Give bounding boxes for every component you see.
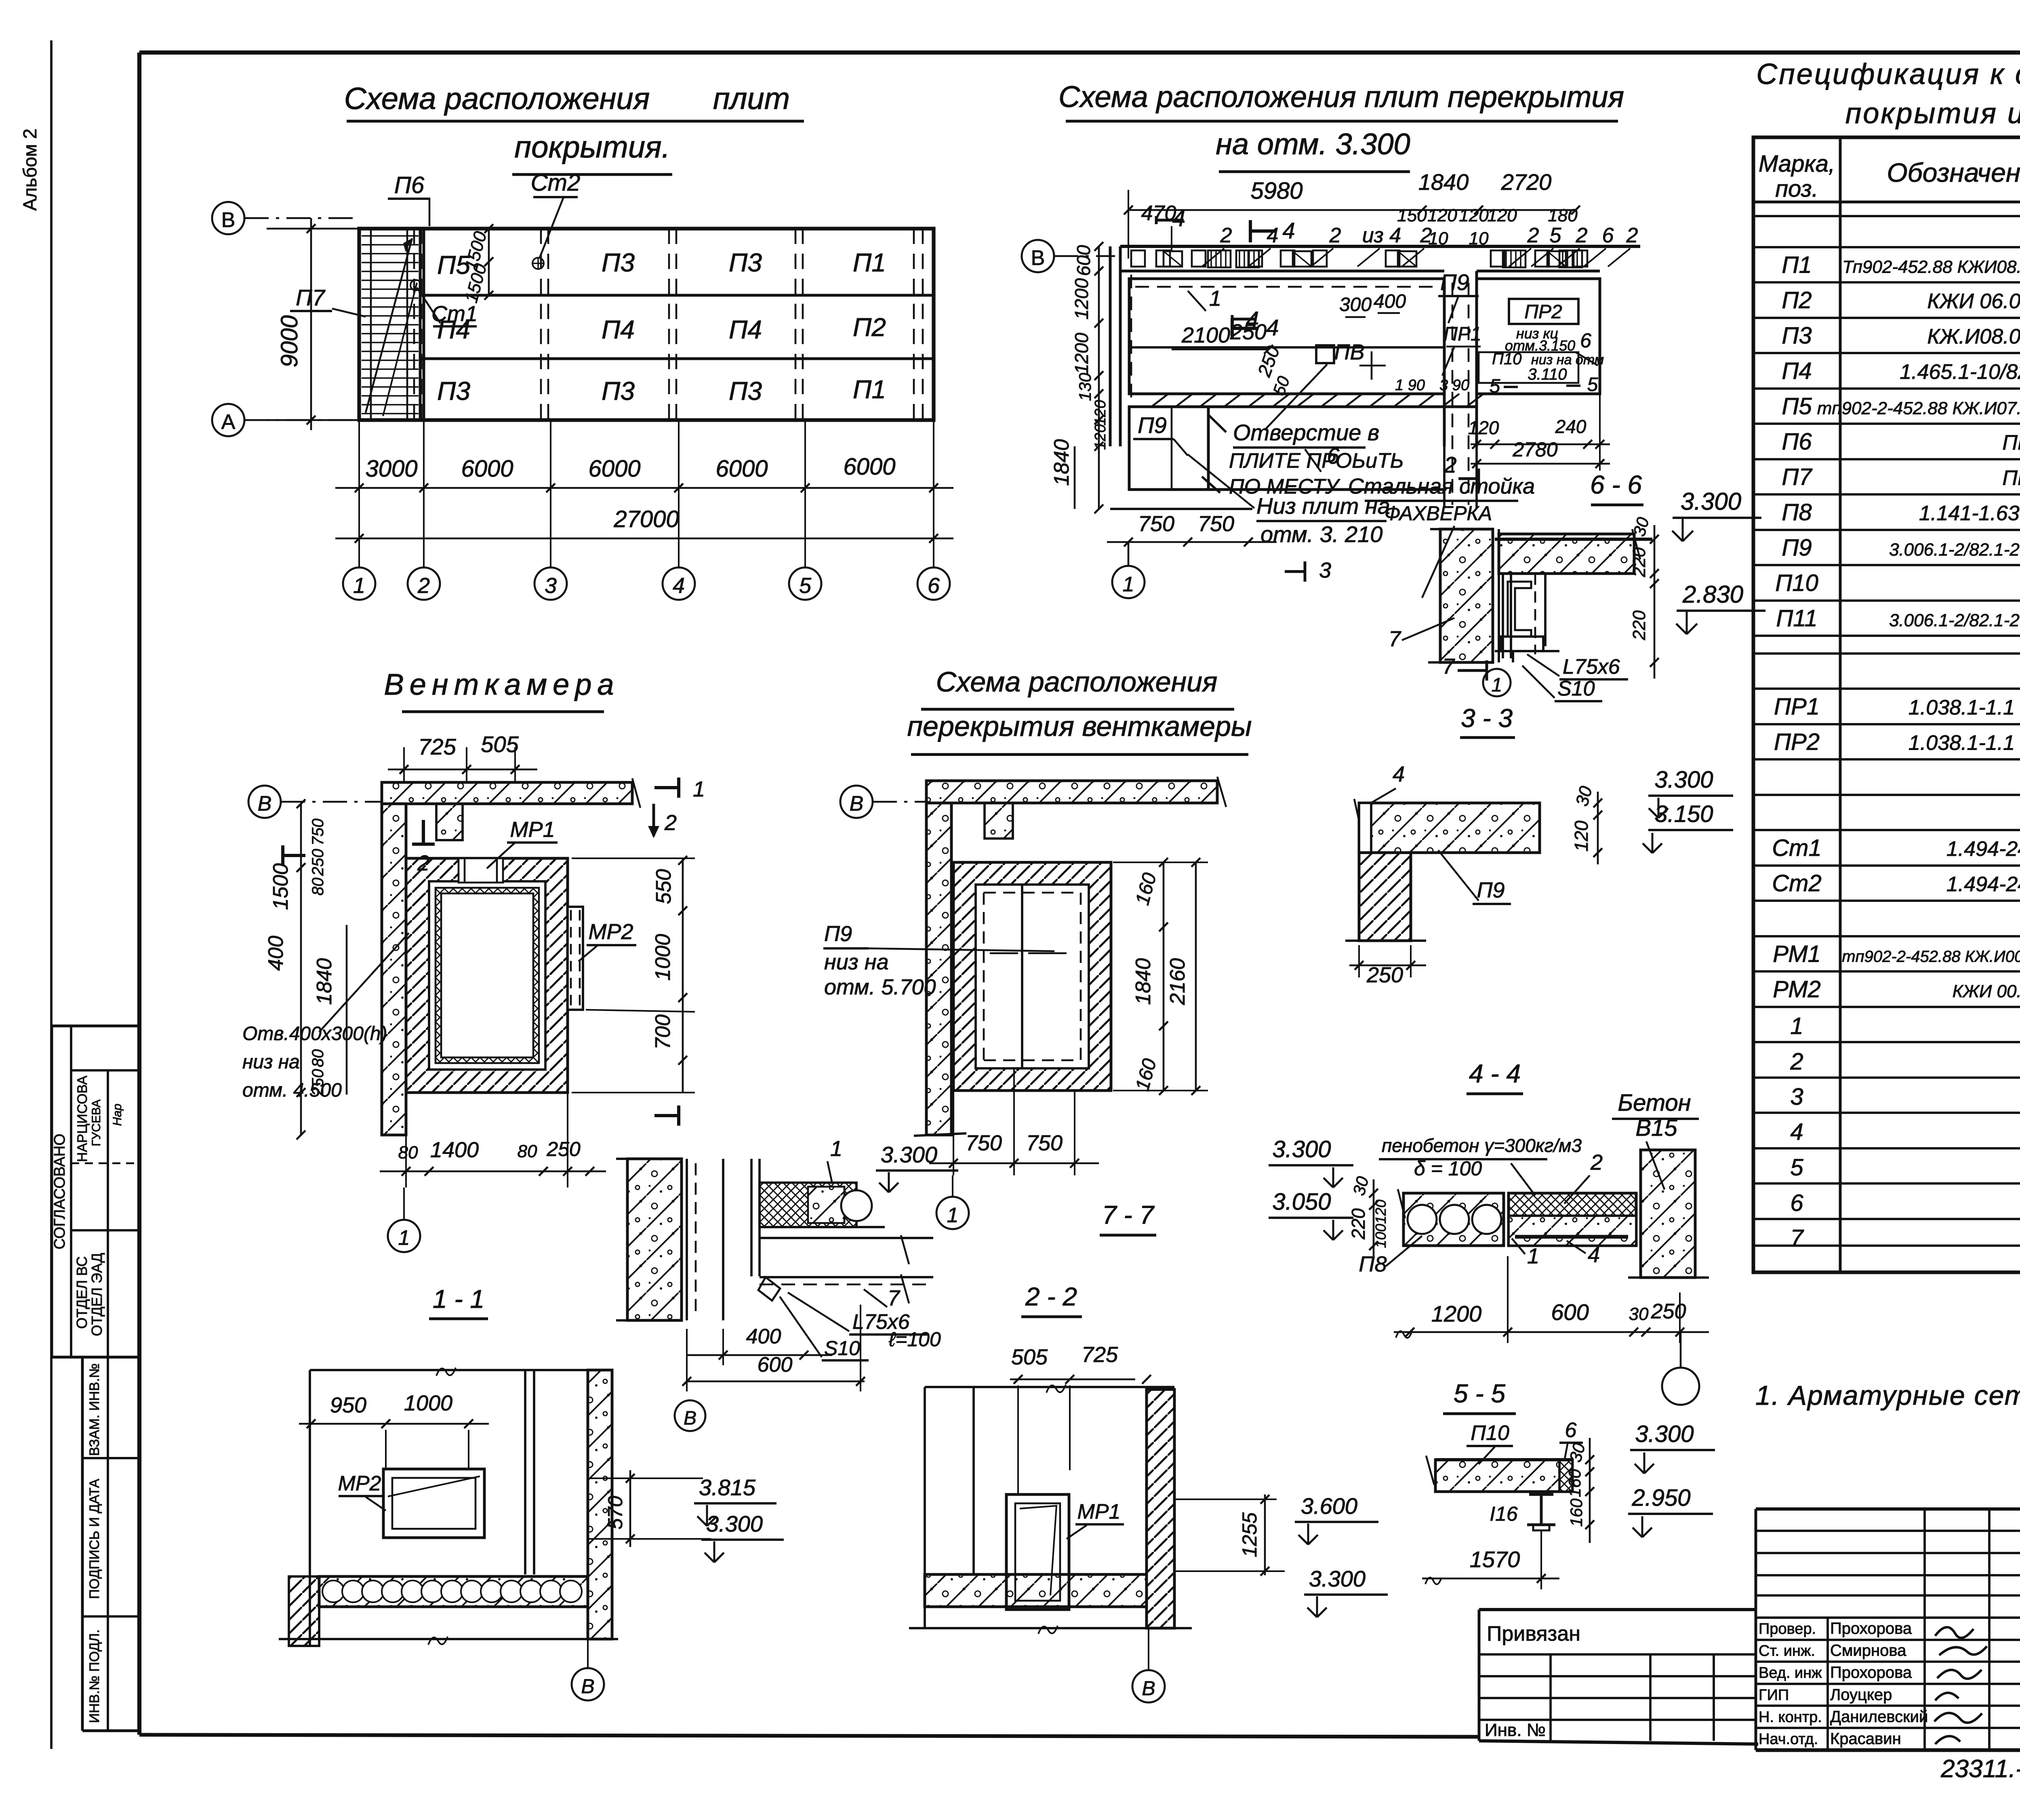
svg-text:В: В — [221, 208, 236, 232]
mid plan axis 1 circle — [936, 1197, 969, 1229]
svg-text:3.110: 3.110 — [1528, 366, 1567, 383]
svg-text:725: 725 — [418, 734, 456, 759]
svg-text:4: 4 — [1266, 315, 1279, 340]
svg-text:2: 2 — [1329, 224, 1341, 247]
svg-text:П4: П4 — [729, 315, 762, 344]
section 6-6 fachwerk channel — [1508, 582, 1531, 637]
sheet paper edge line — [50, 40, 53, 1749]
svg-text:П6: П6 — [394, 172, 425, 198]
plan 2 left wall — [1109, 246, 1112, 446]
svg-text:П3: П3 — [602, 248, 635, 277]
svg-text:4: 4 — [1267, 224, 1279, 247]
svg-text:1. Арматурные сетки поз.4.5: 1. Арматурные сетки поз.4.5 Взяты по ГОС… — [1755, 1380, 2020, 1411]
svg-text:П7: П7 — [1782, 464, 1813, 490]
svg-text:1500: 1500 — [269, 863, 292, 910]
svg-text:3.815: 3.815 — [699, 1475, 756, 1500]
svg-text:S10: S10 — [1557, 677, 1595, 700]
svg-text:В: В — [581, 1675, 594, 1698]
1-1 bottom slab — [319, 1576, 588, 1607]
svg-text:Отв.400х300(h): Отв.400х300(h) — [242, 1023, 387, 1045]
П9 vertical strip right of slab — [1443, 279, 1446, 446]
svg-text:7 - 7: 7 - 7 — [1102, 1200, 1155, 1229]
svg-text:Тп902-452.88 КЖИ08.00.00.00: Тп902-452.88 КЖИ08.00.00.00 — [1842, 257, 2020, 277]
svg-text:6: 6 — [1565, 1419, 1577, 1442]
svg-text:В: В — [684, 1408, 696, 1429]
svg-text:7: 7 — [888, 1286, 901, 1310]
plan 1 outline — [359, 229, 934, 420]
svg-text:7: 7 — [1442, 654, 1455, 679]
ventkamera axis circle 1 — [388, 1220, 420, 1252]
svg-text:ИНВ.№ ПОДЛ.: ИНВ.№ ПОДЛ. — [87, 1629, 102, 1723]
7-7 dims — [687, 1354, 832, 1356]
svg-text:120: 120 — [1468, 417, 1499, 438]
svg-text:1.494-24 вып.1: 1.494-24 вып.1 — [1946, 873, 2020, 896]
section 4-4 monolith part — [1509, 1193, 1636, 1246]
section 3-3 wall below — [1359, 853, 1411, 941]
svg-text:Спецификация к схемам распо: Спецификация к схемам расположения плит — [1756, 58, 2020, 90]
svg-text:П4: П4 — [602, 315, 635, 344]
section 6-6 wall panel below slab — [1502, 574, 1504, 658]
MP2 frame right — [568, 907, 583, 1010]
plan 2 main slab field — [1129, 279, 1444, 394]
svg-text:750: 750 — [1138, 512, 1174, 536]
1-1 right levels — [629, 1470, 631, 1547]
svg-text:3.006.1-2/82.1-2.-1.0-058: 3.006.1-2/82.1-2.-1.0-058 — [1889, 611, 2020, 630]
section 5-5 I-beam — [1540, 1492, 1543, 1525]
svg-text:1: 1 — [1209, 286, 1221, 311]
svg-text:600: 600 — [1551, 1299, 1589, 1325]
svg-text:250: 250 — [1651, 1300, 1686, 1323]
section 3-3 bottom dim — [1349, 965, 1426, 967]
svg-text:П1: П1 — [1782, 252, 1812, 278]
svg-text:150: 150 — [1397, 206, 1427, 225]
svg-text:Красавин: Красавин — [1830, 1730, 1901, 1748]
section 3-3 left cap — [1359, 803, 1371, 853]
svg-text:130: 130 — [1075, 372, 1094, 401]
svg-text:2: 2 — [417, 574, 430, 598]
svg-text:Марка,: Марка, — [1759, 151, 1835, 177]
ventkamera chamber walls — [406, 858, 568, 1093]
svg-text:80: 80 — [309, 878, 327, 896]
svg-text:П4: П4 — [1782, 358, 1812, 384]
svg-text:3: 3 — [1319, 558, 1331, 582]
svg-text:1400: 1400 — [430, 1138, 479, 1162]
MP1 frame opening top — [459, 858, 503, 883]
svg-text:Прохорова: Прохорова — [1830, 1620, 1912, 1637]
svg-text:120: 120 — [1092, 400, 1109, 425]
svg-text:6: 6 — [1602, 224, 1614, 247]
svg-text:ПЛИТЕ ПРОЬиТЬ: ПЛИТЕ ПРОЬиТЬ — [1229, 449, 1404, 473]
ventkamera ceiling block — [436, 804, 463, 840]
svg-text:покрытия.: покрытия. — [514, 130, 670, 164]
svg-text:ПР1: ПР1 — [1443, 324, 1481, 345]
svg-text:Ст2: Ст2 — [1772, 870, 1821, 897]
svg-text:1840: 1840 — [1418, 169, 1469, 195]
svg-text:П3: П3 — [729, 248, 762, 277]
svg-text:низ на: низ на — [242, 1051, 300, 1073]
mid plan chamber — [953, 862, 1111, 1091]
svg-text:П1: П1 — [853, 375, 886, 404]
mid plan bottom dims — [953, 1091, 954, 1175]
svg-text:400: 400 — [264, 936, 288, 971]
svg-text:1: 1 — [1492, 675, 1502, 696]
plan1 axis circles bottom — [358, 549, 360, 567]
svg-text:1 90: 1 90 — [1395, 377, 1425, 394]
svg-text:3 - 3: 3 - 3 — [1461, 704, 1513, 733]
svg-text:ВЗАМ. ИНВ.№: ВЗАМ. ИНВ.№ — [87, 1363, 102, 1456]
svg-text:пенобетон γ=300кг/м3: пенобетон γ=300кг/м3 — [1382, 1135, 1582, 1156]
svg-text:плит: плит — [713, 82, 790, 116]
small channel symbols in band — [1131, 250, 1145, 267]
svg-text:S10: S10 — [824, 1337, 860, 1360]
ventkamera bottom dims — [380, 1171, 606, 1173]
7-7 lower band — [760, 1237, 933, 1239]
svg-text:Венткамера: Венткамера — [384, 668, 619, 701]
svg-text:2: 2 — [1626, 224, 1638, 247]
svg-text:570: 570 — [604, 1496, 627, 1530]
svg-text:2: 2 — [1443, 452, 1456, 477]
2-2 axis B — [1132, 1670, 1165, 1702]
section 4-4 ref circle — [1662, 1368, 1699, 1405]
svg-text:Альбом 2: Альбом 2 — [19, 128, 40, 210]
section 3-3 slab — [1359, 803, 1540, 853]
svg-text:750: 750 — [1026, 1131, 1063, 1155]
svg-text:1: 1 — [947, 1204, 959, 1227]
svg-text:МР1: МР1 — [1077, 1500, 1121, 1524]
svg-text:Схема расположения: Схема расположения — [344, 82, 650, 116]
opening in slab — [1316, 345, 1334, 363]
svg-text:120: 120 — [1372, 1200, 1389, 1224]
svg-text:1000: 1000 — [404, 1391, 452, 1415]
sheet frame — [139, 50, 2020, 55]
svg-text:П8: П8 — [1782, 499, 1812, 525]
1-1 left edge — [309, 1370, 311, 1646]
svg-text:Нар: Нар — [111, 1103, 124, 1126]
axis B/A circles left — [212, 202, 244, 234]
svg-text:ПР2: ПР2 — [1524, 301, 1562, 323]
7-7 left wall — [627, 1159, 682, 1320]
svg-text:Бетон: Бетон — [1618, 1090, 1691, 1116]
ventkamera ceiling slab — [382, 782, 632, 804]
7-7 wall layers — [686, 1159, 688, 1320]
1-1 top dims — [299, 1423, 489, 1425]
svg-text:950: 950 — [330, 1393, 366, 1417]
svg-text:П8: П8 — [1359, 1252, 1387, 1276]
svg-text:1.465.1-10/82 вып.0: 1.465.1-10/82 вып.0 — [1900, 360, 2020, 384]
svg-text:1840: 1840 — [1132, 958, 1155, 1005]
svg-text:МР2: МР2 — [588, 920, 633, 944]
svg-text:5: 5 — [799, 574, 812, 598]
svg-text:3.300: 3.300 — [1635, 1421, 1694, 1447]
svg-text:П6: П6 — [1782, 429, 1812, 455]
svg-text:КЖИ 06.00.00.00: КЖИ 06.00.00.00 — [1927, 290, 2020, 313]
svg-text:3.300: 3.300 — [1272, 1136, 1331, 1162]
svg-text:1570: 1570 — [1470, 1547, 1520, 1572]
svg-text:Смирнова: Смирнова — [1830, 1642, 1906, 1660]
svg-text:250: 250 — [1230, 320, 1267, 344]
svg-text:6: 6 — [928, 574, 940, 598]
section 4-4 left dims — [1373, 1179, 1375, 1256]
svg-text:В: В — [850, 792, 864, 815]
svg-text:В: В — [1031, 246, 1045, 270]
svg-text:ПОДПИСЬ И ДАТА: ПОДПИСЬ И ДАТА — [87, 1479, 102, 1599]
svg-text:6 - 6: 6 - 6 — [1590, 470, 1642, 499]
svg-text:2: 2 — [1576, 224, 1588, 247]
plan2 bottom break and dims — [1110, 508, 1252, 510]
chamber inner liner — [436, 888, 539, 1063]
svg-text:220: 220 — [1348, 1208, 1369, 1240]
svg-text:П3: П3 — [437, 376, 470, 406]
svg-text:РМ1: РМ1 — [1773, 941, 1821, 967]
svg-text:отм. 4.500: отм. 4.500 — [242, 1080, 342, 1101]
svg-text:Ст1: Ст1 — [1772, 835, 1821, 861]
svg-text:400: 400 — [1374, 291, 1406, 312]
svg-text:400: 400 — [746, 1325, 781, 1348]
svg-text:А: А — [221, 410, 236, 434]
svg-text:1.038.1-1.1 070000: 1.038.1-1.1 070000 — [1908, 731, 2020, 755]
axis B circle plan2 — [1022, 240, 1054, 272]
svg-text:6: 6 — [1327, 443, 1340, 469]
svg-text:2720: 2720 — [1501, 169, 1552, 195]
svg-text:80: 80 — [518, 1141, 537, 1161]
7-7 insulation box — [760, 1183, 856, 1227]
section 5-5 bottom dim — [1422, 1578, 1559, 1580]
svg-text:1: 1 — [830, 1137, 842, 1161]
section 4-4 hollow slab — [1403, 1193, 1504, 1246]
mid plan left wall — [926, 803, 951, 1135]
svg-text:2: 2 — [1527, 224, 1539, 247]
svg-text:МР2: МР2 — [338, 1472, 381, 1495]
svg-text:КЖ.И08.00.00.00: КЖ.И08.00.00.00 — [1927, 325, 2020, 349]
svg-text:1: 1 — [353, 574, 365, 598]
svg-text:1.038.1-1.1 030000: 1.038.1-1.1 030000 — [1908, 696, 2020, 719]
section 6-6 left wall — [1440, 529, 1493, 662]
svg-text:5: 5 — [1790, 1154, 1803, 1181]
svg-text:В: В — [1142, 1677, 1155, 1700]
svg-text:250: 250 — [1366, 963, 1403, 987]
svg-text:Схема расположения: Схема расположения — [936, 666, 1218, 698]
svg-text:Провер.: Провер. — [1759, 1620, 1816, 1637]
2-2 right dims — [1264, 1494, 1266, 1575]
plan 1 interior dashed axis pairs — [413, 229, 415, 420]
svg-text:П2: П2 — [1782, 287, 1812, 313]
svg-text:КЖИ 00.02.00.00: КЖИ 00.02.00.00 — [1953, 981, 2020, 1001]
svg-text:1200: 1200 — [1071, 278, 1092, 319]
svg-text:1.494-24 вып.1: 1.494-24 вып.1 — [1946, 837, 2020, 861]
svg-text:220: 220 — [1629, 610, 1649, 641]
section 4-4 bottom dims — [1394, 1331, 1709, 1333]
svg-text:Инв. №: Инв. № — [1485, 1720, 1546, 1740]
svg-text:6000: 6000 — [843, 454, 895, 480]
svg-text:ПК-01-88: ПК-01-88 — [2002, 431, 2020, 454]
svg-text:2.950: 2.950 — [1631, 1485, 1690, 1511]
svg-text:5: 5 — [1490, 376, 1500, 397]
svg-text:2 - 2: 2 - 2 — [1025, 1282, 1077, 1311]
bottom wall hatch strip — [1129, 393, 1444, 395]
svg-text:Стальная стойка: Стальная стойка — [1348, 474, 1535, 498]
svg-text:5980: 5980 — [1250, 178, 1302, 204]
svg-text:4: 4 — [673, 574, 685, 598]
svg-text:L75x6: L75x6 — [1563, 655, 1620, 679]
svg-text:Отверстие в: Отверстие в — [1233, 420, 1379, 445]
svg-text:2780: 2780 — [1512, 438, 1557, 461]
svg-text:П1: П1 — [853, 248, 886, 277]
svg-text:6000: 6000 — [715, 456, 768, 482]
svg-text:4: 4 — [1393, 762, 1405, 786]
svg-text:220: 220 — [1629, 547, 1649, 578]
svg-text:из 4: из 4 — [1362, 224, 1401, 247]
svg-text:1: 1 — [1123, 573, 1134, 596]
svg-text:I16: I16 — [1490, 1503, 1518, 1525]
svg-text:П3: П3 — [729, 376, 762, 406]
right part band — [1477, 279, 1600, 394]
svg-text:6: 6 — [1790, 1190, 1803, 1216]
svg-text:ПВ: ПВ — [1334, 340, 1364, 364]
mid plan right dims — [1163, 862, 1165, 1091]
svg-text:3.150: 3.150 — [1654, 801, 1713, 827]
svg-text:отм. 3. 210: отм. 3. 210 — [1260, 521, 1382, 547]
svg-text:6000: 6000 — [588, 456, 640, 482]
svg-text:1255: 1255 — [1238, 1512, 1261, 1557]
svg-text:7: 7 — [1389, 627, 1401, 651]
svg-text:1840: 1840 — [1050, 439, 1073, 486]
svg-text:2.830: 2.830 — [1682, 581, 1743, 608]
svg-text:600: 600 — [757, 1353, 793, 1377]
title block name table — [1755, 1618, 1757, 1750]
svg-text:550: 550 — [652, 869, 675, 904]
svg-text:П9: П9 — [824, 922, 852, 946]
svg-text:ГУСЕВА: ГУСЕВА — [90, 1099, 103, 1146]
svg-text:4: 4 — [1790, 1119, 1803, 1145]
1-1 axis B bottom — [572, 1668, 604, 1700]
svg-text:3000: 3000 — [365, 456, 417, 482]
svg-text:Обозначение: Обозначение — [1887, 158, 2020, 187]
svg-text:750: 750 — [966, 1131, 1002, 1155]
svg-text:НАРЦИСОВА: НАРЦИСОВА — [75, 1076, 90, 1162]
svg-text:1.141-1.63 300-01: 1.141-1.63 300-01 — [1919, 502, 2020, 525]
svg-text:5: 5 — [1587, 374, 1598, 395]
svg-text:120: 120 — [1427, 206, 1457, 225]
svg-text:2160: 2160 — [1166, 958, 1189, 1005]
svg-text:П3: П3 — [602, 376, 635, 406]
svg-text:Вед. инж: Вед. инж — [1759, 1664, 1822, 1681]
2-2 bottom slab — [925, 1574, 1147, 1607]
svg-text:3.300: 3.300 — [1309, 1566, 1366, 1591]
svg-text:ОТДЕЛ ЭАД: ОТДЕЛ ЭАД — [88, 1253, 105, 1336]
svg-text:725: 725 — [1082, 1343, 1118, 1367]
section 5-5 slab — [1435, 1460, 1572, 1492]
plan1 bottom dims — [358, 420, 360, 549]
svg-text:700: 700 — [651, 1015, 675, 1050]
left vertical dim 9000 — [310, 218, 312, 430]
plan2 right bottom dims 120 240 2780 — [1471, 443, 1610, 446]
7-7 anchor angle — [758, 1277, 780, 1301]
section 6-6 right dims — [1654, 525, 1656, 679]
svg-text:1000: 1000 — [651, 934, 675, 981]
svg-text:3: 3 — [1790, 1084, 1803, 1110]
svg-text:180: 180 — [1548, 206, 1578, 225]
svg-text:2: 2 — [1220, 224, 1232, 247]
svg-text:120: 120 — [1092, 424, 1109, 450]
svg-text:2: 2 — [1420, 224, 1432, 247]
svg-text:П9: П9 — [1138, 412, 1167, 438]
1-1 left hatch block — [289, 1576, 319, 1646]
svg-text:2: 2 — [1790, 1049, 1803, 1075]
svg-text:80: 80 — [398, 1143, 418, 1162]
svg-text:505: 505 — [481, 731, 519, 757]
svg-text:поз.: поз. — [1775, 176, 1818, 202]
svg-text:250: 250 — [546, 1138, 581, 1160]
svg-text:6: 6 — [1580, 329, 1591, 352]
svg-text:Ст1: Ст1 — [431, 302, 478, 326]
svg-text:27000: 27000 — [613, 506, 679, 532]
1-1 wall layers right — [524, 1370, 526, 1574]
svg-text:МР1: МР1 — [510, 818, 555, 842]
2-2 MP1 frame — [1006, 1494, 1069, 1610]
svg-text:2100: 2100 — [1181, 323, 1230, 347]
section cut marks ventkamera — [654, 786, 679, 789]
2-2 right wall — [1147, 1389, 1174, 1628]
section cut marks ventkamera bottom — [654, 1114, 679, 1117]
svg-text:П9: П9 — [1440, 269, 1469, 295]
mid plan break bottom — [914, 1133, 966, 1136]
1500 1500 dims — [488, 229, 490, 295]
svg-text:2: 2 — [417, 851, 429, 875]
privyazan block — [1479, 1608, 1756, 1611]
signatures squiggles — [1934, 1627, 1987, 1744]
section 5-5 right dims — [1589, 1438, 1591, 1543]
mid plan ceiling slab — [926, 781, 1217, 803]
svg-text:П10: П10 — [1471, 1421, 1509, 1445]
svg-text:3.600: 3.600 — [1301, 1493, 1357, 1519]
svg-text:Нач.отд.: Нач.отд. — [1759, 1731, 1818, 1748]
plan 2 top dims — [1128, 209, 1422, 211]
svg-text:3 90: 3 90 — [1439, 377, 1469, 394]
svg-text:6000: 6000 — [461, 456, 513, 482]
svg-text:СОГЛАСОВАНО: СОГЛАСОВАНО — [51, 1134, 68, 1250]
section 6-6 slab — [1499, 534, 1634, 574]
1-1 MP2 frame — [383, 1469, 484, 1538]
7-7 axis circle B — [675, 1400, 705, 1431]
svg-text:Н. контр.: Н. контр. — [1759, 1709, 1822, 1725]
svg-text:1: 1 — [1527, 1244, 1539, 1268]
svg-text:Привязан: Привязан — [1487, 1622, 1580, 1646]
svg-text:П11: П11 — [1776, 605, 1817, 632]
svg-text:П9: П9 — [1782, 535, 1812, 561]
svg-text:300: 300 — [1339, 294, 1372, 315]
svg-text:80: 80 — [309, 1049, 327, 1068]
svg-text:3.300: 3.300 — [1681, 488, 1741, 515]
svg-text:Данилевский: Данилевский — [1830, 1708, 1928, 1725]
svg-text:ПК-01-88: ПК-01-88 — [2002, 467, 2020, 490]
2-2 top break — [925, 1386, 1174, 1388]
svg-text:ГИП: ГИП — [1759, 1687, 1789, 1704]
svg-text:5: 5 — [1550, 224, 1562, 247]
section 4-4 right wall — [1641, 1150, 1695, 1278]
svg-text:1200: 1200 — [1431, 1301, 1482, 1326]
svg-text:δ = 100: δ = 100 — [1414, 1157, 1482, 1180]
section cut marks plan2 — [1249, 220, 1252, 242]
svg-text:2: 2 — [664, 811, 677, 835]
svg-text:750: 750 — [309, 819, 327, 846]
svg-text:4: 4 — [1588, 1243, 1600, 1267]
svg-text:ПР2: ПР2 — [1774, 729, 1820, 755]
plan 2 top band (ceiling slabs) — [1120, 245, 1640, 248]
svg-text:ПР1: ПР1 — [1774, 694, 1820, 720]
svg-text:3.300: 3.300 — [1654, 767, 1713, 793]
svg-text:100: 100 — [1372, 1224, 1389, 1248]
svg-text:Ст. инж.: Ст. инж. — [1759, 1643, 1815, 1660]
